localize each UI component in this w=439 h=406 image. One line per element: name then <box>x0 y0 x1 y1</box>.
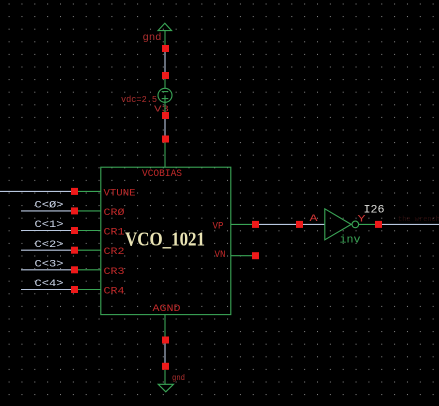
svg-text:inv: inv <box>340 235 361 247</box>
wire <box>164 119 166 137</box>
junction VN pin <box>252 252 259 259</box>
wire stub VN <box>231 255 253 257</box>
svg-text:VCO_1021: VCO_1021 <box>125 228 205 250</box>
svg-text:CR1: CR1 <box>104 228 125 239</box>
wire (to VCOBIAS pin) <box>164 143 166 168</box>
wire <box>164 52 166 73</box>
wire stub CR1 <box>78 230 101 232</box>
junction CR0 pin <box>71 207 78 214</box>
wire C<0> <box>21 210 72 212</box>
wire C<4> <box>21 289 72 291</box>
svg-text:A: A <box>310 214 318 225</box>
wire stub CR3 <box>78 269 101 271</box>
svg-text:CR4: CR4 <box>104 287 125 298</box>
wire C<3> <box>21 269 72 271</box>
junction <box>162 112 169 119</box>
junction CR1 pin <box>71 227 78 234</box>
wire (output net to edge) <box>382 223 439 225</box>
wire C<1> <box>21 230 72 232</box>
svg-text:VP: VP <box>213 221 224 232</box>
svg-text:vdc=2.5: vdc=2.5 <box>121 95 157 105</box>
junction VTUNE pin <box>71 188 78 195</box>
wire stub CR0 <box>78 210 101 212</box>
junction <box>162 363 169 370</box>
junction <box>162 45 169 52</box>
wire (A to inverter) <box>303 223 325 225</box>
wire (source bottom) <box>164 102 166 113</box>
inverter I26 <box>325 209 351 240</box>
junction VP pin <box>252 221 259 228</box>
wire stub CR4 <box>78 289 101 291</box>
svg-text:C<4>: C<4> <box>35 279 64 290</box>
wire (bubble to junction) <box>359 223 376 225</box>
svg-text:the wrench com: the wrench com <box>398 216 439 224</box>
junction CR3 pin <box>71 266 78 273</box>
instance box VCO_1021 <box>101 167 231 314</box>
svg-text:C<1>: C<1> <box>35 220 64 231</box>
power symbol vdd arrow (net gnd) <box>158 23 172 30</box>
junction output <box>375 221 382 228</box>
svg-text:CR3: CR3 <box>104 267 125 278</box>
junction CR2 pin <box>71 247 78 254</box>
wire stub VP <box>231 223 253 225</box>
wire (to source top) <box>164 79 166 89</box>
wire VTUNE net <box>0 190 72 192</box>
svg-text:VN: VN <box>215 250 226 261</box>
wire <box>259 223 297 225</box>
svg-text:CRØ: CRØ <box>104 207 125 219</box>
svg-text:I26: I26 <box>364 204 385 216</box>
ground symbol <box>158 384 173 392</box>
svg-text:AGND: AGND <box>153 304 181 315</box>
svg-text:gnd: gnd <box>143 32 162 44</box>
svg-text:C<2>: C<2> <box>35 240 64 251</box>
wire C<2> <box>21 249 72 251</box>
wire (AGND pin down) <box>164 315 166 337</box>
junction <box>162 136 169 143</box>
svg-text:CR2: CR2 <box>104 247 125 258</box>
svg-text:C<3>: C<3> <box>35 259 64 270</box>
junction <box>162 337 169 344</box>
junction <box>162 72 169 79</box>
junction node A <box>296 221 303 228</box>
svg-text:VCOBIAS: VCOBIAS <box>142 169 182 180</box>
svg-text:VTUNE: VTUNE <box>104 188 136 199</box>
svg-text:C<Ø>: C<Ø> <box>35 200 64 212</box>
wire <box>164 344 166 364</box>
wire (arrow to junction) <box>164 31 166 46</box>
wire stub CR2 <box>78 249 101 251</box>
wire (to ground) <box>164 370 166 385</box>
wire stub VTUNE <box>78 190 101 192</box>
voltage source V3 <box>158 88 172 102</box>
svg-text:gnd: gnd <box>172 374 185 383</box>
junction CR4 pin <box>71 286 78 293</box>
